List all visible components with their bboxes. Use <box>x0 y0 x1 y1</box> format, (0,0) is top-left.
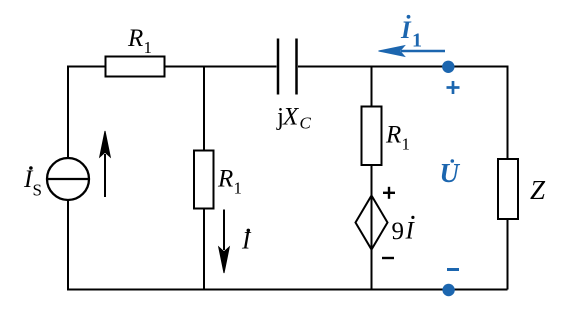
svg-text:C: C <box>300 114 312 133</box>
label jXC <box>276 103 312 132</box>
node bottom (blue dot) <box>442 284 454 296</box>
dependent source 9I (diamond) <box>356 196 388 250</box>
capacitor jXC <box>278 39 297 95</box>
svg-text:Z: Z <box>530 175 546 205</box>
label R1 middle <box>217 165 242 197</box>
label U (blue) <box>440 158 461 188</box>
svg-text:X: X <box>282 103 300 130</box>
svg-text:1: 1 <box>412 30 422 52</box>
label minus (blue) <box>447 268 459 271</box>
label 9I <box>392 216 416 245</box>
label + (diamond) <box>383 187 395 199</box>
svg-text:1: 1 <box>402 135 411 154</box>
wire right (Z to bottom corner) <box>507 219 509 290</box>
wire top right (capacitor to corner) <box>298 67 508 160</box>
node top (blue dot) <box>442 61 454 73</box>
label Z <box>530 175 546 205</box>
wire bottom <box>68 289 508 291</box>
label R1 top <box>127 25 152 57</box>
label I1 (blue) <box>400 15 422 52</box>
current source arrow (up) <box>100 131 111 197</box>
svg-text:I: I <box>405 218 416 245</box>
wire left (source to top) <box>67 67 69 159</box>
blue current arrow I1 (left) <box>379 46 446 57</box>
svg-text:R: R <box>127 25 143 52</box>
wire middle branch lower <box>203 209 205 290</box>
current source IS <box>47 158 89 200</box>
impedance Z <box>498 159 518 219</box>
wire top middle (R1 to capacitor) <box>165 66 277 68</box>
svg-text:I: I <box>241 228 252 255</box>
wire top-left horizontal <box>68 67 106 81</box>
wire branch2 upper <box>371 67 373 107</box>
label I (middle) <box>241 228 252 255</box>
svg-text:1: 1 <box>234 179 243 198</box>
resistor R1 (middle) <box>194 151 214 209</box>
wire middle branch upper <box>203 67 205 151</box>
label + (blue) <box>447 81 460 94</box>
svg-text:R: R <box>217 165 233 192</box>
wire left (source to bottom corner) <box>68 200 204 290</box>
svg-text:I: I <box>400 17 412 44</box>
resistor R1 (right) <box>362 107 382 166</box>
label R1 right <box>385 122 410 154</box>
resistor R1 (top) <box>106 57 165 77</box>
svg-text:1: 1 <box>144 38 153 57</box>
svg-text:R: R <box>385 122 401 149</box>
svg-text:9: 9 <box>392 218 405 245</box>
svg-text:U: U <box>440 158 461 188</box>
svg-text:S: S <box>33 181 42 200</box>
label IS <box>23 166 42 200</box>
label minus (diamond) <box>382 257 394 259</box>
wire branch2 between R1 and diamond <box>371 165 373 196</box>
wire branch2 lower <box>371 250 373 290</box>
current arrow I (down) <box>219 210 230 274</box>
